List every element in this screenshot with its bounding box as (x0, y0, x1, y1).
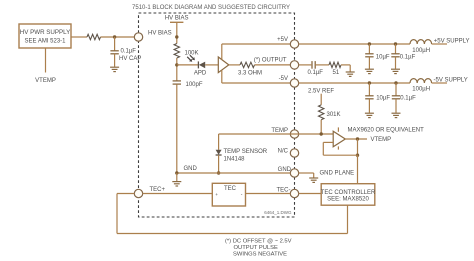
svg-text:-5V: -5V (279, 76, 288, 82)
svg-text:VTEMP: VTEMP (35, 78, 56, 84)
svg-text:10µF: 10µF (376, 95, 390, 101)
svg-text:7510-1 BLOCK DIAGRAM AND SUGGE: 7510-1 BLOCK DIAGRAM AND SUGGESTED CIRCU… (132, 5, 290, 11)
svg-text:TEC+: TEC+ (150, 187, 166, 193)
svg-text:+: + (215, 192, 218, 197)
svg-text:10µF: 10µF (376, 54, 390, 60)
svg-text:(*) DC OFFSET @ ~ 2.5V: (*) DC OFFSET @ ~ 2.5V (225, 238, 292, 244)
svg-text:TEMP SENSOR: TEMP SENSOR (224, 149, 268, 155)
svg-text:HV BIAS: HV BIAS (165, 15, 189, 21)
svg-text:0.1µF: 0.1µF (400, 54, 416, 60)
svg-text:GND: GND (184, 166, 198, 172)
svg-text:0.1µF: 0.1µF (308, 70, 324, 76)
svg-text:TEMP: TEMP (271, 128, 288, 134)
svg-text:SEE: MAX8520: SEE: MAX8520 (327, 197, 369, 203)
svg-text:MAX9620 OR EQUIVALENT: MAX9620 OR EQUIVALENT (348, 127, 425, 133)
svg-text:3.3 OHM: 3.3 OHM (238, 70, 262, 76)
svg-text:100µH: 100µH (412, 87, 430, 93)
svg-text:SEE AMI 523-1: SEE AMI 523-1 (24, 39, 66, 45)
svg-text:100K: 100K (185, 50, 199, 56)
svg-text:51: 51 (333, 70, 340, 76)
svg-text:0.1µF: 0.1µF (400, 95, 416, 101)
svg-text:(*) OUTPUT: (*) OUTPUT (254, 58, 287, 64)
svg-text:APD: APD (194, 71, 207, 77)
svg-text:SWINGS NEGATIVE: SWINGS NEGATIVE (233, 252, 287, 258)
svg-text:TEC: TEC (224, 186, 237, 192)
svg-text:2.5V REF: 2.5V REF (308, 88, 334, 94)
svg-text:301K: 301K (327, 112, 341, 118)
svg-text:TEC-: TEC- (277, 187, 291, 193)
svg-text:HV CAP: HV CAP (119, 56, 141, 62)
svg-text:6464_1.DWG: 6464_1.DWG (264, 210, 292, 215)
svg-text:100µH: 100µH (412, 48, 430, 54)
svg-text:HV PWR SUPPLY: HV PWR SUPPLY (20, 29, 70, 36)
svg-text:100pF: 100pF (186, 82, 203, 88)
svg-text:HV BIAS: HV BIAS (148, 30, 172, 36)
svg-text:0.1µF: 0.1µF (121, 49, 137, 55)
svg-text:-5V SUPPLY: -5V SUPPLY (434, 77, 468, 83)
svg-text:GND: GND (278, 167, 292, 173)
svg-text:1N4148: 1N4148 (224, 156, 246, 162)
svg-text:+5V SUPPLY: +5V SUPPLY (434, 38, 470, 44)
svg-text:TEC CONTROLLER: TEC CONTROLLER (321, 190, 376, 196)
svg-text:N/C: N/C (278, 148, 289, 154)
svg-text:+5V: +5V (277, 37, 288, 43)
svg-text:VTEMP: VTEMP (371, 137, 392, 143)
svg-text:GND PLANE: GND PLANE (320, 171, 355, 177)
svg-text:OUTPUT PULSE: OUTPUT PULSE (234, 245, 278, 251)
